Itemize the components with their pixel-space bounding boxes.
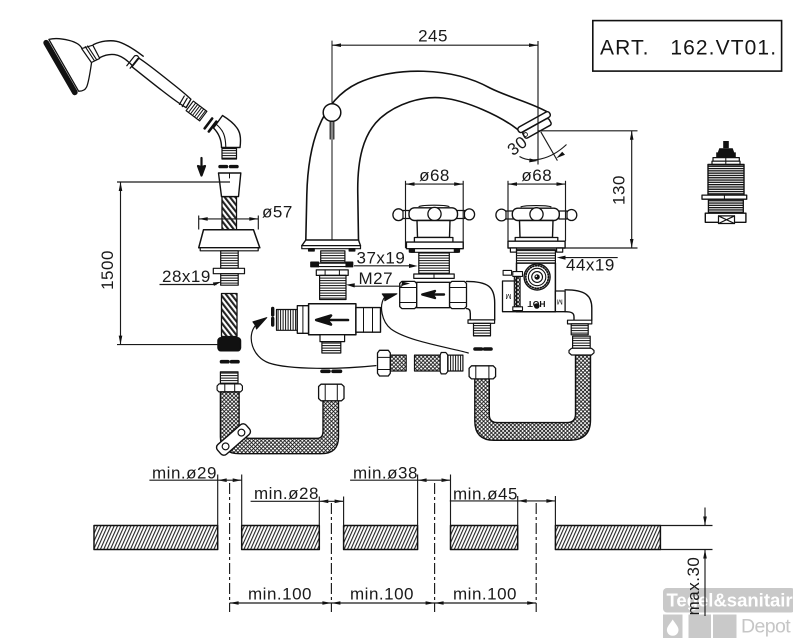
hose tail threaded nipple <box>220 372 238 384</box>
check valve right nut <box>356 308 381 333</box>
hose clamp bracket <box>215 422 252 457</box>
middle valve body <box>400 281 495 336</box>
right U braided hose <box>475 355 591 440</box>
deck hole3 centerline <box>434 483 436 612</box>
check valve vertical gasket <box>271 309 274 326</box>
svg-text:37x19: 37x19 <box>357 249 406 268</box>
hand shower head face rim (black) <box>46 43 75 93</box>
svg-text:ø68: ø68 <box>419 166 450 185</box>
holder threaded column lower <box>221 274 239 286</box>
dim min.o29 <box>149 475 241 526</box>
spout base <box>302 240 361 246</box>
shower hose upper segment <box>222 197 237 230</box>
spare cartridge base <box>705 213 746 222</box>
svg-text:44x19: 44x19 <box>566 256 615 275</box>
svg-text:M: M <box>557 298 563 305</box>
svg-text:min.ø28: min.ø28 <box>254 484 319 503</box>
assembly swoosh leader 2 <box>382 297 469 353</box>
hose tail hex nut <box>217 384 242 392</box>
label M27 <box>346 282 410 288</box>
svg-text:max.30: max.30 <box>684 557 703 616</box>
check valve bottom neck <box>320 335 345 342</box>
svg-text:min.ø45: min.ø45 <box>453 485 518 504</box>
spout washer black <box>311 262 319 266</box>
gasket above left U right leg <box>322 369 341 373</box>
svg-text:Depot: Depot <box>741 616 791 638</box>
svg-text:28x19: 28x19 <box>162 267 211 286</box>
dim o68 left <box>406 181 464 248</box>
spout centerline <box>331 41 333 240</box>
mounting deck cross-section <box>94 526 660 550</box>
deck hole1 centerline <box>229 483 231 612</box>
left U braided hose <box>220 392 338 454</box>
spout shank M27 <box>320 275 346 299</box>
check valve body <box>309 304 356 335</box>
spout shank 37x19 <box>321 251 345 262</box>
svg-text:130: 130 <box>610 175 629 205</box>
spout aerator tip <box>517 111 555 140</box>
check valve left male thread <box>277 310 298 331</box>
gasket between handshower and elbow <box>205 118 217 131</box>
label 28x19 <box>160 282 222 286</box>
spare cartridge lower ribbed body <box>708 199 743 213</box>
label 44x19 <box>557 256 618 260</box>
svg-text:min.ø29: min.ø29 <box>152 464 217 483</box>
hand shower handle <box>132 58 191 107</box>
dim 1500 <box>117 182 230 345</box>
deck hole2 centerline <box>330 503 332 612</box>
svg-text:min.100: min.100 <box>248 585 312 604</box>
diverter threaded column 44x19 <box>517 250 556 263</box>
shower hose lower segment <box>222 294 238 337</box>
hand shower end collar <box>179 96 187 107</box>
right cross handle <box>496 206 577 253</box>
holder square nut <box>213 268 244 273</box>
dim min.o38 <box>350 475 450 526</box>
label 37x19 <box>354 264 418 268</box>
middle valve elbow <box>467 281 495 320</box>
left U right leg hex nut <box>319 384 344 401</box>
svg-text:ø68: ø68 <box>521 166 552 185</box>
holder escutcheon <box>199 230 260 248</box>
spout inner edge <box>358 98 518 241</box>
dim min.o28 <box>251 497 344 526</box>
horizontal flex hose <box>378 350 463 376</box>
hose end grommet (black) <box>218 338 241 351</box>
diverter left wing <box>503 281 517 312</box>
check valve left collar <box>297 306 308 334</box>
spout diverter knob <box>323 104 341 122</box>
svg-text:M: M <box>505 292 511 299</box>
svg-text:1500: 1500 <box>98 250 117 290</box>
elbow threaded outlet <box>222 149 237 160</box>
diverter right wing <box>555 291 565 312</box>
deck hole4 centerline <box>535 503 537 612</box>
diverter knurled dial <box>524 264 550 290</box>
check valve flow arrow <box>316 316 348 325</box>
svg-text:min.100: min.100 <box>453 585 517 604</box>
diverter elbow <box>565 290 592 320</box>
spout base tabs <box>309 249 314 251</box>
holder threaded column 28x19 <box>221 251 239 268</box>
hand shower arm <box>93 41 143 66</box>
hand shower threaded tip <box>186 101 207 121</box>
svg-text:min.ø38: min.ø38 <box>353 464 418 483</box>
spare cartridge stem (black) <box>723 141 729 148</box>
spare cartridge X-box <box>719 216 735 224</box>
gasket under grommet <box>222 360 239 364</box>
dim min.o45 <box>450 496 556 526</box>
ART box <box>593 21 782 72</box>
svg-text:ART. 162.VT01.: ART. 162.VT01. <box>600 37 777 60</box>
right U left leg hex nut <box>469 366 496 379</box>
diverter left top bracket <box>503 270 512 275</box>
hand shower head bell <box>49 39 92 92</box>
hand shower handle collar <box>127 56 140 69</box>
spare cartridge collar rings <box>713 158 739 162</box>
hand shower neck collar <box>82 45 100 62</box>
check valve bottom thread <box>322 342 341 353</box>
right U right leg male thread <box>573 336 591 348</box>
diverter body <box>503 263 592 335</box>
gasket above holder <box>220 165 237 168</box>
dim min.100 chain <box>230 601 537 605</box>
spare cartridge cap (black) <box>716 148 736 157</box>
spare cartridge flange <box>702 195 747 199</box>
elbow fitting <box>214 116 241 148</box>
dim 245 <box>332 41 538 165</box>
diverter screw with crosshatch <box>513 272 523 277</box>
svg-text:min.100: min.100 <box>350 585 414 604</box>
dim 30 deg arc <box>520 132 567 163</box>
assembly swoosh leader 1 <box>251 326 376 369</box>
gasket above right U left leg <box>475 347 491 351</box>
spout body and curved neck outer edge <box>306 71 548 240</box>
svg-text:ø57: ø57 <box>262 203 293 222</box>
dim max.30 <box>660 508 712 617</box>
svg-text:245: 245 <box>418 27 448 46</box>
spout nut <box>316 270 348 276</box>
right U right leg hex collar <box>569 348 594 355</box>
spare cartridge upper ribbed body <box>708 165 744 196</box>
dim 130 <box>539 131 638 248</box>
dim o57 <box>199 216 259 230</box>
down arrow (insert hose) <box>198 158 205 176</box>
holder cone insert <box>219 173 241 197</box>
watermark logo Tegel&sanitair Depot <box>663 588 793 638</box>
left cross handle <box>393 205 475 278</box>
dim o68 right <box>508 181 566 241</box>
svg-text:M27: M27 <box>359 269 394 288</box>
